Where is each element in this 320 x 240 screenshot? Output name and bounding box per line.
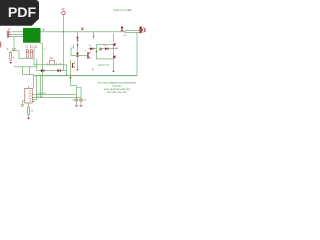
- pin tick right: [116, 47, 118, 49]
- diode D1: [41, 69, 44, 72]
- note text block: [98, 82, 137, 95]
- svg-text:T1: T1: [84, 51, 87, 53]
- capacitor C4: [79, 87, 87, 107]
- wire ic2 left pin: [22, 101, 25, 104]
- svg-text:J1: J1: [8, 29, 11, 31]
- wire step to caps: [71, 86, 82, 88]
- PDF badge: [0, 0, 39, 26]
- svg-text:o: o: [110, 54, 111, 56]
- svg-text:X2: X2: [62, 9, 66, 11]
- wire v40.5: [40, 75, 42, 98]
- resistor R2: [28, 107, 34, 119]
- wire collector to relay: [89, 48, 97, 50]
- label X mark: [81, 28, 84, 31]
- transistor T1: [84, 51, 91, 59]
- wire ic2 stub C: [32, 99, 36, 101]
- pad X2 top: [62, 9, 66, 15]
- svg-text:1k: 1k: [31, 111, 34, 113]
- wire v66.5: [66, 65, 68, 76]
- junction v70.5: [70, 77, 72, 79]
- diode D2: [57, 69, 60, 72]
- label tick R1 value: [12, 57, 14, 59]
- button S1: [47, 58, 56, 65]
- wire stub above IC2: [28, 86, 30, 88]
- wire v36.6 lower: [36, 76, 38, 100]
- relay pin top right: [113, 43, 116, 47]
- svg-text:S1: S1: [50, 58, 54, 60]
- pin dot relay left: [96, 51, 97, 52]
- wire rail down left-mid: [63, 32, 65, 71]
- IC2 box: [25, 88, 32, 103]
- wire ic2 out B: [32, 97, 81, 99]
- wire h66.8: [14, 66, 37, 68]
- connector J1: [7, 31, 11, 38]
- wire drop from bundle: [13, 37, 15, 49]
- svg-text:D2: D2: [104, 45, 108, 47]
- wire ic2 out A: [32, 94, 76, 96]
- capacitor C2: [30, 46, 34, 57]
- diode edge left: [0, 42, 2, 48]
- svg-text:for hobby use only: for hobby use only: [107, 91, 127, 94]
- wire double rail right: [125, 31, 140, 33]
- junction on rail: [63, 31, 65, 33]
- wire relay top stub: [113, 34, 115, 43]
- wire pad to rail: [63, 15, 65, 32]
- ground below bundle: [12, 49, 16, 51]
- resistor R1 left: [7, 49, 12, 64]
- relay pin bottom right: [113, 55, 116, 59]
- svg-text:SENSOR: SENSOR: [37, 93, 47, 95]
- diode D5 on rail: [121, 26, 128, 37]
- svg-text:in: in: [44, 49, 46, 51]
- svg-text:C2: C2: [30, 46, 34, 48]
- wire right drop: [136, 32, 138, 75]
- wire relay bottom drop: [113, 59, 115, 71]
- wire staircase left: [12, 51, 34, 59]
- svg-text:R: R: [7, 49, 9, 51]
- svg-text:PDF: PDF: [8, 5, 37, 21]
- ground ic2: [21, 105, 24, 107]
- pin mark below stub: [93, 36, 95, 38]
- wire step above rail: [23, 67, 34, 89]
- diode D4: [89, 45, 93, 50]
- pin tick mid: [92, 68, 94, 70]
- relay pin stub right: [114, 48, 117, 50]
- junction relay drop: [113, 71, 115, 73]
- wire h64.8: [34, 64, 67, 66]
- transistor T2: [72, 63, 75, 69]
- svg-text:ECHO: ECHO: [37, 96, 44, 98]
- wire ic2 bottom pin: [28, 103, 30, 107]
- wire ic2 stub D: [32, 100, 35, 102]
- wire h70.6: [37, 70, 67, 72]
- svg-text:D1: D1: [89, 45, 93, 47]
- svg-text:D5: D5: [124, 35, 128, 37]
- capacitor C3: [72, 87, 79, 107]
- relay internal diode: [104, 45, 109, 50]
- wire main top rail: [12, 31, 125, 33]
- IC1 voltage regulator block: [23, 28, 41, 43]
- svg-text:RELAY 5V: RELAY 5V: [99, 64, 110, 67]
- capacitor C1: [25, 46, 29, 57]
- pin dot block right: [43, 29, 44, 30]
- svg-text:k: k: [110, 41, 111, 43]
- svg-text:C4: C4: [83, 100, 87, 102]
- svg-text:11: 11: [35, 44, 38, 48]
- wire v70.5: [70, 60, 72, 86]
- wire v36.8: [36, 59, 38, 71]
- wire block bottom down: [41, 43, 43, 94]
- relay internal wire: [100, 48, 114, 50]
- connector right X1: [140, 27, 146, 33]
- ground rail: [34, 75, 138, 77]
- wire base feed: [71, 45, 87, 56]
- svg-text:C1: C1: [25, 46, 29, 48]
- wire stub above relay: [93, 32, 95, 36]
- relay K1 box: [97, 45, 114, 59]
- wire vertical x34: [33, 47, 35, 65]
- wire connector bundle: [11, 34, 23, 36]
- relay coil mark: [99, 48, 101, 51]
- diode D3 vertical: [76, 32, 79, 71]
